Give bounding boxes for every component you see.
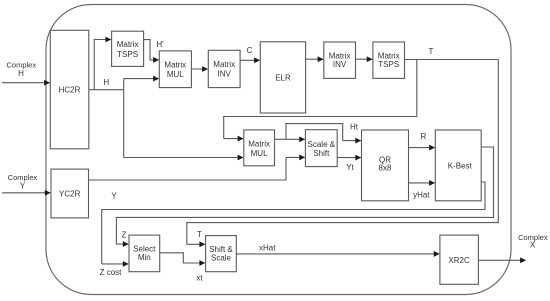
svg-text:xt: xt [196,274,203,283]
svg-text:Z cost: Z cost [100,268,123,277]
svg-text:H: H [18,69,24,78]
svg-text:K-Best: K-Best [448,161,473,170]
svg-text:ELR: ELR [275,73,291,82]
svg-text:H': H' [156,40,164,49]
svg-text:T: T [197,230,202,239]
svg-text:Matrix: Matrix [164,60,186,69]
svg-text:TSPS: TSPS [378,60,399,69]
svg-text:Min: Min [138,253,151,262]
svg-text:H: H [103,78,109,87]
svg-text:Y: Y [111,192,117,201]
svg-text:8x8: 8x8 [379,164,392,173]
svg-text:MUL: MUL [251,149,268,158]
svg-text:R: R [421,132,427,141]
svg-text:X: X [530,241,536,250]
svg-text:Matrix: Matrix [117,40,139,49]
svg-text:Z: Z [122,230,127,239]
svg-text:yHat: yHat [413,190,430,199]
svg-text:Yt: Yt [346,163,354,172]
svg-text:XR2C: XR2C [448,256,470,265]
svg-text:Matrix: Matrix [213,60,235,69]
svg-text:xHat: xHat [259,243,276,252]
svg-text:TSPS: TSPS [117,50,138,59]
svg-text:Matrix: Matrix [248,140,270,149]
svg-text:Matrix: Matrix [329,52,351,61]
svg-text:T: T [429,47,434,56]
svg-text:INV: INV [333,60,347,69]
svg-text:Matrix: Matrix [378,52,400,61]
svg-text:Ht: Ht [350,123,359,132]
svg-text:YC2R: YC2R [59,190,81,199]
svg-text:Y: Y [20,181,26,190]
svg-text:C: C [247,46,253,55]
svg-text:Shift: Shift [313,149,330,158]
svg-text:HC2R: HC2R [59,85,81,94]
svg-text:INV: INV [218,70,232,79]
svg-text:MUL: MUL [167,70,184,79]
svg-text:Scale: Scale [211,253,232,262]
svg-text:Scale &: Scale & [308,140,336,149]
